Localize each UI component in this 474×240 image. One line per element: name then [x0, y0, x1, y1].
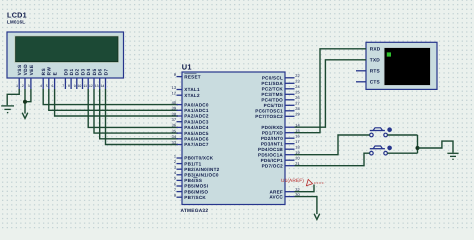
svg-text:ATMEGA32: ATMEGA32	[181, 208, 209, 214]
svg-text:PA3/ADC3: PA3/ADC3	[184, 119, 209, 124]
LCD1 pin D3 (pin 10)	[78, 68, 86, 89]
U1 pin PB2/AIN0/INT2 (3) left	[174, 165, 220, 172]
svg-text:PD3/INT1: PD3/INT1	[261, 141, 283, 146]
svg-text:D6: D6	[98, 68, 103, 75]
svg-text:AVCC: AVCC	[269, 194, 283, 199]
svg-text:1: 1	[174, 153, 176, 158]
wire VSS to earth ground	[7, 89, 19, 105]
terminal pin RXD	[370, 47, 381, 53]
svg-text:18: 18	[295, 145, 299, 150]
svg-text:4: 4	[40, 84, 42, 88]
svg-text:U1: U1	[182, 62, 192, 71]
svg-text:PA6/ADC6: PA6/ADC6	[184, 137, 209, 142]
svg-text:PC6/TOSC1: PC6/TOSC1	[255, 109, 283, 114]
svg-text:12: 12	[89, 84, 93, 88]
svg-text:PC2/TCK: PC2/TCK	[262, 87, 284, 92]
U1 pin PB1/T1 (2) left	[174, 159, 202, 166]
wire junction to earth ground	[418, 141, 454, 153]
U1 pin PC2/TCK (24) right	[262, 84, 301, 91]
U1 pin XTAL1 (13) left	[172, 85, 200, 92]
terminal pin RTS	[356, 69, 380, 75]
LCD1 pin VEE (pin 3)	[28, 64, 34, 89]
svg-text:PA1/ADC1: PA1/ADC1	[184, 108, 209, 113]
svg-text:27: 27	[295, 101, 299, 106]
svg-text:PC0/SCL: PC0/SCL	[262, 76, 283, 81]
svg-text:38: 38	[172, 111, 176, 116]
LCD display LCD1 body	[7, 32, 124, 89]
U1 pin PD1/TXD (15) right	[262, 128, 300, 135]
LCD1 pin D6 (pin 13)	[95, 68, 103, 89]
U1 pin PA3/ADC3 (37) left	[172, 117, 209, 124]
LCD1 pin VDD (pin 2)	[22, 64, 28, 89]
svg-text:23: 23	[295, 79, 299, 84]
U1 pin PB5/MOSI (6) left	[174, 181, 208, 188]
wire U1 AVCC to ground terminal	[295, 197, 317, 214]
U1 pin PD5/OC1A (19) right	[258, 150, 300, 157]
U1 pin PA6/ADC6 (34) left	[172, 134, 209, 141]
U1 pin PA5/ADC5 (35) left	[172, 128, 209, 135]
svg-text:13: 13	[172, 85, 176, 90]
svg-text:D1: D1	[69, 68, 74, 75]
LCD1 pin E (pin 6)	[52, 72, 58, 89]
LCD1 pin D1 (pin 8)	[68, 68, 74, 89]
U1 pin PB7/SCK (8) left	[174, 193, 207, 200]
U1 pin PA0/ADC0 (40) left	[172, 100, 209, 107]
svg-text:6: 6	[174, 181, 176, 186]
LCD1 pin D4 (pin 11)	[83, 68, 91, 89]
wire terminal TXD to U1 PD0/RXD	[295, 60, 367, 127]
svg-text:6: 6	[52, 84, 54, 88]
svg-text:PD6/ICP1: PD6/ICP1	[261, 158, 284, 163]
U1 pin XTAL2 (12) left	[172, 91, 200, 98]
svg-text:D4: D4	[86, 68, 91, 75]
svg-text:D0: D0	[63, 68, 68, 75]
svg-text:PD5/OC1A: PD5/OC1A	[258, 152, 283, 157]
U1 pin AVCC (30) right	[269, 192, 300, 199]
terminal pin TXD	[370, 58, 381, 64]
svg-text:PC7/TOSC2: PC7/TOSC2	[255, 114, 283, 119]
U1 pin PC6/TOSC1 (28) right	[255, 106, 299, 113]
LCD1 pin RW (pin 5)	[46, 67, 52, 89]
U1 pin PD0/RXD (14) right	[261, 123, 300, 130]
svg-text:22: 22	[295, 73, 299, 78]
wire button B1 to junction	[387, 134, 417, 136]
LCD1 pin VSS (pin 1)	[16, 64, 22, 89]
svg-text:29: 29	[295, 112, 299, 117]
U1 pin PC7/TOSC2 (29) right	[255, 112, 299, 119]
svg-text:VDD: VDD	[23, 64, 28, 76]
svg-text:PC5/TDI: PC5/TDI	[264, 103, 283, 108]
earth ground symbol (buttons)	[447, 153, 458, 159]
net label U1(AREF)	[281, 178, 325, 186]
svg-text:PD2/INT0: PD2/INT0	[261, 136, 283, 141]
svg-text:5: 5	[174, 176, 176, 181]
svg-text:5: 5	[46, 84, 48, 88]
svg-text:16: 16	[295, 134, 299, 139]
LCD1 green screen	[16, 37, 119, 62]
svg-text:25: 25	[295, 90, 299, 95]
svg-text:PB2/AIN0/INT2: PB2/AIN0/INT2	[184, 167, 219, 172]
svg-text:17: 17	[295, 139, 299, 144]
svg-text:PD4/OC1B: PD4/OC1B	[258, 147, 283, 152]
wire LCD D4 to U1 PA4	[88, 89, 178, 127]
svg-text:7: 7	[174, 187, 176, 192]
svg-text:14: 14	[101, 84, 105, 88]
U1 pin RESET (9) left	[174, 72, 201, 79]
svg-text:U1(AREF): U1(AREF)	[281, 178, 304, 184]
svg-text:D5: D5	[92, 68, 97, 75]
svg-text:PA0/ADC0: PA0/ADC0	[184, 102, 209, 107]
svg-text:35: 35	[172, 128, 176, 133]
U1 pin PC1/SDA (23) right	[261, 79, 299, 86]
wire VEE joins VDD	[25, 89, 31, 102]
wire U1 PD5/OC1A to button B1	[295, 135, 370, 155]
wire LCD RW to U1 PA1	[49, 89, 178, 110]
ground terminal arrow (AVCC)	[314, 214, 320, 220]
svg-text:PB5/MOSI: PB5/MOSI	[184, 184, 208, 189]
svg-text:LM016L: LM016L	[7, 19, 25, 24]
terminal pin CTS	[356, 80, 380, 86]
svg-text:RW: RW	[47, 67, 52, 76]
U1 pin PA4/ADC4 (36) left	[172, 123, 209, 130]
svg-text:PD7/OC2: PD7/OC2	[262, 163, 284, 168]
U1 pin PA1/ADC1 (39) left	[172, 106, 209, 113]
svg-text:E: E	[53, 72, 58, 76]
svg-text:PA7/ADC7: PA7/ADC7	[184, 142, 209, 147]
svg-text:CTS: CTS	[370, 80, 381, 86]
wire LCD RS to U1 PA0	[43, 89, 178, 105]
svg-text:PD1/TXD: PD1/TXD	[262, 130, 284, 135]
U1 pin PA7/ADC7 (33) left	[172, 140, 209, 147]
svg-text:11: 11	[83, 84, 87, 88]
button B2 actuator dot	[387, 146, 392, 151]
LCD1 pin D7 (pin 14)	[101, 68, 109, 89]
LCD1 pin D5 (pin 12)	[89, 68, 97, 89]
svg-text:9: 9	[74, 84, 76, 88]
virtual terminal screen	[384, 48, 431, 86]
svg-text:2: 2	[174, 159, 176, 164]
svg-text:3: 3	[28, 84, 30, 88]
U1 pin PC0/SCL (22) right	[262, 73, 300, 80]
U1 pin PC5/TDI (27) right	[264, 101, 300, 108]
svg-text:9: 9	[174, 72, 176, 77]
wire LCD D7 to U1 PA7	[106, 89, 179, 145]
virtual terminal body	[366, 42, 437, 89]
ground terminal arrow (below VDD)	[22, 113, 28, 119]
svg-text:XTAL2: XTAL2	[184, 93, 200, 98]
svg-text:33: 33	[172, 140, 176, 145]
svg-text:39: 39	[172, 106, 176, 111]
wire LCD D6 to U1 PA6	[100, 89, 178, 139]
svg-text:D2: D2	[75, 68, 80, 75]
earth ground symbol (LCD VSS)	[1, 106, 14, 113]
button B1 actuator dot	[387, 127, 392, 132]
U1 pin PA2/ADC2 (38) left	[172, 111, 209, 118]
LCD1 pin D0 (pin 7)	[62, 68, 68, 89]
svg-text:RTS: RTS	[370, 69, 381, 75]
svg-text:PA5/ADC5: PA5/ADC5	[184, 131, 209, 136]
U1 pin PD4/OC1B (18) right	[258, 145, 300, 152]
svg-text:PB0/T0/XCK: PB0/T0/XCK	[184, 156, 213, 161]
svg-text:TXD: TXD	[370, 58, 381, 64]
svg-text:8: 8	[68, 84, 70, 88]
svg-text:D7: D7	[103, 68, 108, 75]
svg-text:PC1/SDA: PC1/SDA	[261, 81, 283, 86]
svg-text:PB6/MISO: PB6/MISO	[184, 189, 208, 194]
svg-text:PA4/ADC4: PA4/ADC4	[184, 125, 209, 130]
svg-text:36: 36	[172, 123, 176, 128]
wire VDD to ground terminal	[24, 89, 26, 114]
svg-text:PB3/AIN1/OC0: PB3/AIN1/OC0	[184, 173, 219, 178]
wire junction vertical	[417, 135, 419, 153]
LCD1 screen bevel	[14, 35, 119, 63]
svg-text:RESET: RESET	[184, 74, 201, 79]
svg-text:XTAL1: XTAL1	[184, 87, 200, 92]
svg-text:13: 13	[95, 84, 99, 88]
U1 pin PB6/MISO (7) left	[174, 187, 209, 194]
U1 pin PB4/SS (5) left	[174, 176, 202, 183]
svg-text:8: 8	[174, 193, 176, 198]
svg-text:LCD1: LCD1	[7, 11, 27, 20]
wire U1 PD7/OC2 to button B2	[295, 153, 370, 166]
svg-text:1: 1	[16, 84, 18, 88]
svg-text:PC3/TMS: PC3/TMS	[261, 92, 283, 97]
U1 pin AREF (32) right	[269, 187, 299, 194]
LCD display LCD1 reference label	[7, 11, 27, 25]
wire LCD D5 to U1 PA5	[94, 89, 178, 133]
push button B2	[370, 146, 388, 155]
LCD1 pin D2 (pin 9)	[74, 68, 80, 89]
push button B1	[370, 128, 388, 137]
svg-text:PC4/TDO: PC4/TDO	[261, 98, 283, 103]
U1 pin PD6/ICP1 (20) right	[261, 156, 301, 163]
svg-text:PB4/SS: PB4/SS	[184, 178, 202, 183]
svg-text:RS: RS	[41, 68, 46, 76]
svg-text:26: 26	[295, 95, 299, 100]
LCD1 pin RS (pin 4)	[40, 68, 46, 89]
svg-text:37: 37	[172, 117, 176, 122]
junction dot buttons	[416, 146, 420, 150]
svg-text:D3: D3	[80, 68, 85, 75]
U1 pin PC3/TMS (25) right	[261, 90, 299, 97]
svg-text:7: 7	[62, 84, 64, 88]
wire button B2 to junction	[387, 152, 417, 154]
svg-text:28: 28	[295, 106, 299, 111]
svg-text:VSS: VSS	[17, 64, 22, 75]
svg-text:3: 3	[174, 165, 176, 170]
U1 pin PB0/T0/XCK (1) left	[174, 153, 214, 160]
terminal cursor	[387, 52, 391, 56]
U1 pin PD7/OC2 (21) right	[262, 161, 300, 168]
wire terminal RXD to U1 PD1/TXD	[295, 49, 367, 133]
svg-text:RXD: RXD	[370, 47, 381, 53]
microcontroller U1 body	[182, 72, 285, 205]
svg-text:PA2/ADC2: PA2/ADC2	[184, 114, 209, 119]
svg-text:12: 12	[172, 91, 176, 96]
U1 pin PD2/INT0 (16) right	[261, 134, 300, 141]
junction VDD/VEE	[23, 100, 27, 104]
U1 pin PD3/INT1 (17) right	[261, 139, 300, 146]
svg-text:VEE: VEE	[29, 64, 34, 75]
U1 pin PB3/AIN1/OC0 (4) left	[174, 170, 219, 177]
svg-text:10: 10	[78, 84, 82, 88]
svg-text:PD0/RXD: PD0/RXD	[261, 125, 283, 130]
wire U1 AREF stub	[295, 185, 315, 192]
U1 pin PC4/TDO (26) right	[261, 95, 299, 102]
svg-text:PB7/SCK: PB7/SCK	[184, 195, 206, 200]
wire LCD E to U1 PA2	[55, 89, 178, 116]
svg-text:PB1/T1: PB1/T1	[184, 161, 201, 166]
svg-text:2: 2	[22, 84, 24, 88]
